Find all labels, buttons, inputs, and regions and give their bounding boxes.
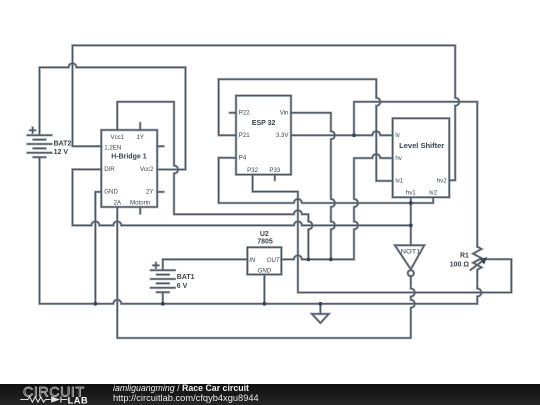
svg-text:Vin: Vin: [280, 110, 289, 117]
svg-text:hv: hv: [395, 155, 402, 162]
svg-text:1,2EN: 1,2EN: [104, 144, 121, 151]
svg-text:2Y: 2Y: [146, 188, 153, 195]
node rail ground junction: [319, 302, 323, 306]
svg-text:Level Shifter: Level Shifter: [399, 143, 444, 150]
svg-text:GND: GND: [258, 268, 272, 275]
svg-text:P33: P33: [269, 167, 280, 174]
svg-text:LAB: LAB: [68, 395, 89, 405]
svg-text:hv2: hv2: [437, 178, 447, 185]
CircuitLab logo: [0, 384, 110, 405]
footer bar: [0, 384, 540, 405]
svg-text:lv2: lv2: [429, 189, 437, 196]
node rail U2 GND junction: [263, 302, 267, 306]
svg-text:1Y: 1Y: [136, 134, 143, 141]
node 3.3V junction: [352, 133, 356, 137]
svg-text:ESP 32: ESP 32: [252, 120, 276, 127]
svg-text:Vcc2: Vcc2: [140, 166, 154, 173]
node NOT1 input upper junction: [409, 201, 413, 205]
svg-text:2A: 2A: [114, 199, 122, 206]
node rail BAT1 junction: [161, 302, 165, 306]
svg-text:100 Ω: 100 Ω: [450, 262, 470, 269]
svg-text:Motorin: Motorin: [130, 199, 150, 206]
node OUT-Vcc1 junction: [307, 258, 311, 262]
svg-text:6 V: 6 V: [177, 283, 188, 290]
svg-text:hv1: hv1: [406, 189, 416, 196]
svg-text:P22: P22: [239, 110, 250, 117]
node rail HB GND junction: [94, 302, 98, 306]
svg-text:GND: GND: [104, 188, 118, 195]
svg-text:lv1: lv1: [395, 178, 403, 185]
svg-text:R1: R1: [460, 252, 469, 259]
svg-text:DIR: DIR: [104, 166, 115, 173]
svg-text:BAT2: BAT2: [54, 140, 72, 147]
svg-text:NOT1: NOT1: [401, 249, 421, 256]
svg-text:P21: P21: [239, 132, 250, 139]
svg-text:12 V: 12 V: [54, 149, 69, 156]
resistor R1 arrowhead: [480, 257, 487, 265]
svg-text:3.3V: 3.3V: [276, 132, 289, 139]
svg-text:7805: 7805: [257, 239, 273, 246]
svg-text:P32: P32: [247, 167, 258, 174]
node NOT1 input lower junction: [409, 224, 413, 228]
svg-text:H-Bridge 1: H-Bridge 1: [111, 153, 147, 160]
svg-text:P4: P4: [239, 155, 247, 162]
node OUT-Vin junction: [329, 258, 333, 262]
svg-text:BAT1: BAT1: [177, 274, 195, 281]
svg-text:Vcc1: Vcc1: [111, 134, 125, 141]
svg-text:IN: IN: [249, 257, 256, 264]
svg-text:lv: lv: [395, 132, 400, 139]
svg-text:U2: U2: [260, 231, 269, 238]
svg-text:OUT: OUT: [267, 257, 281, 264]
